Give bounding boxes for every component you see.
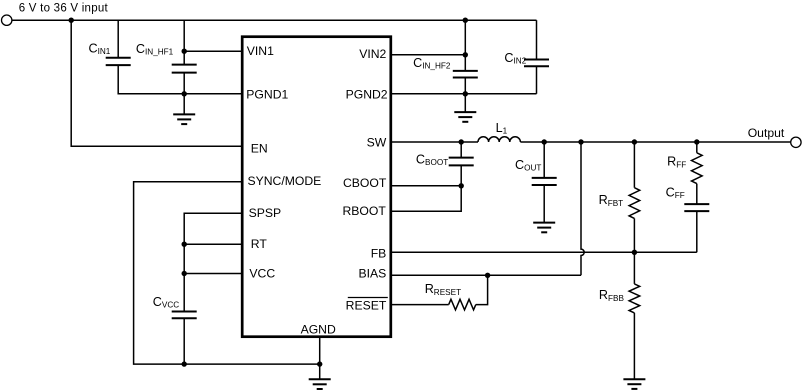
svg-text:CFF: CFF: [666, 185, 685, 200]
svg-text:VCC: VCC: [249, 267, 275, 281]
svg-text:AGND: AGND: [301, 322, 336, 336]
node: RT junction: [182, 242, 187, 247]
svg-text:VIN2: VIN2: [359, 47, 386, 61]
svg-text:RFBB: RFBB: [599, 288, 625, 303]
capacitor CVCC: [172, 311, 197, 313]
wire: RRESET to BIAS: [476, 275, 488, 304]
wire: BIAS pin line: [391, 274, 581, 276]
resistor RRESET: [449, 299, 476, 310]
wire: SW to inductor: [391, 141, 478, 143]
node: FB junction: [632, 250, 637, 255]
wire: VIN2: [391, 54, 466, 56]
node: RFBT junction: [632, 139, 637, 144]
svg-text:PGND1: PGND1: [246, 88, 288, 102]
svg-text:CIN1: CIN1: [89, 42, 111, 57]
svg-text:BIAS: BIAS: [359, 267, 387, 281]
svg-text:COUT: COUT: [515, 158, 541, 173]
wire: PGND2: [391, 93, 537, 95]
svg-text:PGND2: PGND2: [346, 87, 388, 101]
node: top rail / CIN_HF2 junction: [463, 18, 468, 23]
svg-text:VIN1: VIN1: [247, 44, 274, 58]
svg-text:SPSP: SPSP: [249, 206, 282, 220]
node: SW / CBOOT junction: [459, 139, 464, 144]
ground: COUT ground: [533, 223, 555, 233]
node: VIN2 junction: [463, 52, 468, 57]
capacitor CBOOT: [460, 142, 462, 158]
node: PGND2 junction: [463, 91, 468, 96]
svg-text:CBOOT: CBOOT: [416, 152, 448, 167]
output terminal: [791, 137, 801, 147]
node: junction dot top rail / EN: [69, 18, 74, 23]
svg-text:CIN2: CIN2: [504, 51, 526, 66]
ground: RFBB ground: [623, 379, 645, 389]
ground: input ground: [173, 114, 195, 124]
wire: SPSP vertical: [184, 213, 242, 311]
wire: BIAS riser with hop over FB: [581, 142, 584, 275]
node: RFF junction: [694, 139, 699, 144]
wire: top input rail: [12, 19, 537, 21]
svg-text:RESET: RESET: [346, 298, 387, 312]
ground: AGND ground: [309, 379, 331, 389]
capacitor CFF: [684, 203, 709, 205]
capacitor CIN_HF2: [464, 20, 466, 71]
resistor RFBT: [633, 142, 635, 188]
svg-text:L1: L1: [496, 121, 508, 136]
svg-text:6 V to 36 V input: 6 V to 36 V input: [19, 2, 109, 14]
capacitor CIN_HF1: [183, 20, 185, 64]
capacitor CIN2: [536, 20, 538, 59]
node: VIN1 junction: [182, 49, 187, 54]
resistor RFBB: [633, 252, 635, 284]
svg-text:CVCC: CVCC: [153, 295, 179, 310]
wire: FB pin line: [391, 251, 697, 253]
wire: VCC: [184, 273, 242, 275]
svg-text:CIN_HF1: CIN_HF1: [136, 42, 174, 57]
wire: EN vertical from top rail: [71, 20, 242, 146]
svg-text:RRESET: RRESET: [425, 282, 461, 297]
inductor L1: [478, 137, 520, 142]
wire: AGND stem: [319, 337, 321, 380]
ground: CIN_HF2 ground: [454, 112, 476, 122]
capacitor CIN1: [117, 20, 119, 58]
svg-text:SW: SW: [367, 135, 387, 149]
node: COUT junction: [542, 139, 547, 144]
svg-text:EN: EN: [251, 142, 268, 156]
node: AGND junction: [317, 361, 322, 366]
wire: PGND1: [118, 65, 242, 94]
wire: RESET pin lead: [391, 304, 449, 306]
wire: RBOOT pin: [391, 186, 461, 212]
svg-text:RFF: RFF: [667, 155, 686, 170]
node: PGND1 junction: [182, 91, 187, 96]
svg-text:RT: RT: [251, 237, 268, 251]
wire: output rail: [520, 141, 790, 143]
svg-text:CIN_HF2: CIN_HF2: [413, 56, 451, 71]
resistor RFF: [696, 142, 698, 153]
wire: SYNC/MODE loop: [134, 182, 320, 364]
svg-text:RBOOT: RBOOT: [342, 204, 386, 218]
IC U1 (buck converter): [242, 37, 391, 337]
svg-text:RFBT: RFBT: [599, 193, 624, 208]
svg-text:Output: Output: [748, 126, 785, 140]
svg-text:SYNC/MODE: SYNC/MODE: [248, 174, 322, 188]
wire: RT: [184, 243, 242, 245]
svg-text:FB: FB: [371, 247, 387, 261]
node: BIAS / RRESET junction: [485, 273, 490, 278]
input terminal: [2, 15, 12, 25]
svg-text:CBOOT: CBOOT: [343, 176, 387, 190]
wire: CBOOT pin: [391, 185, 461, 187]
node: VCC junction: [182, 271, 187, 276]
node: BIAS riser junction: [578, 139, 583, 144]
wire: VIN1 to CIN_HF1: [184, 50, 242, 52]
node: CBOOT junction: [459, 183, 464, 188]
node: CVCC bottom junction: [182, 361, 187, 366]
capacitor COUT: [543, 142, 545, 178]
